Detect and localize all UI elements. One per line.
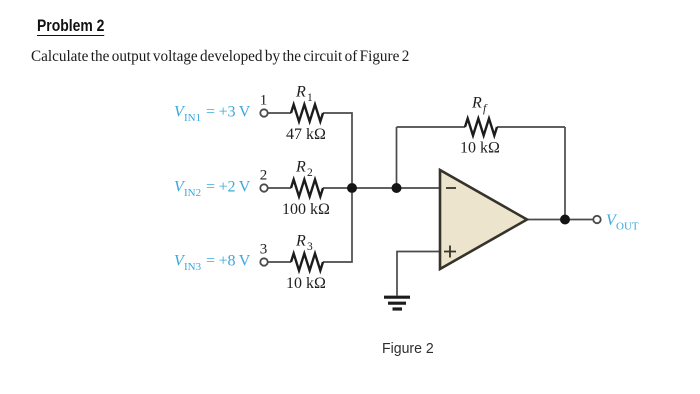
svg-text:IN1: IN1 xyxy=(184,112,201,124)
node B junction dot xyxy=(392,183,402,193)
wire: R1 right to bus corner and down to node A xyxy=(323,113,352,183)
svg-text:R: R xyxy=(295,84,306,101)
svg-text:f: f xyxy=(483,103,488,115)
svg-text:= +3 V: = +3 V xyxy=(206,104,251,121)
wire: input 2 terminal to R2 xyxy=(268,187,291,189)
output node junction dot xyxy=(560,215,570,225)
svg-text:R: R xyxy=(295,233,306,250)
input terminal 3 xyxy=(260,258,267,265)
resistor Rf xyxy=(465,95,497,136)
wire: feedback top right segment from Rf xyxy=(497,126,565,128)
wire: input 1 terminal to R1 xyxy=(268,112,291,114)
value label 10 kΩ (Rf) xyxy=(460,140,500,157)
svg-text:IN2: IN2 xyxy=(184,187,201,199)
svg-text:R: R xyxy=(471,95,482,112)
value label 100 kΩ xyxy=(282,201,330,218)
resistor R1 xyxy=(291,84,323,122)
svg-text:2: 2 xyxy=(260,168,268,184)
svg-text:3: 3 xyxy=(307,241,313,253)
svg-text:= +8 V: = +8 V xyxy=(206,253,251,270)
wire: feedback top left segment to Rf xyxy=(397,126,466,128)
resistor R2 xyxy=(291,159,323,197)
ground xyxy=(384,297,410,309)
pin number 3 xyxy=(260,242,268,258)
output terminal VOUT circle xyxy=(593,216,600,223)
svg-text:3: 3 xyxy=(260,242,268,258)
wire: node A to node B to op-amp inverting input xyxy=(352,187,440,189)
problem statement text xyxy=(31,48,409,66)
value label 10 kΩ xyxy=(286,275,326,292)
wire: R2 right to node A xyxy=(323,187,352,189)
value label 47 kΩ xyxy=(286,126,326,143)
wire: R3 right to bus corner and up to node A xyxy=(323,193,352,262)
label VIN1 = +3 V xyxy=(174,104,251,125)
wire: op-amp output to output node to VOUT terminal xyxy=(527,219,593,221)
wire: feedback left vertical from node B up xyxy=(396,127,398,188)
svg-text:IN3: IN3 xyxy=(184,261,202,273)
label VIN2 = +2 V xyxy=(174,179,251,200)
label VIN3 = +8 V xyxy=(174,253,251,274)
svg-text:1: 1 xyxy=(260,93,268,109)
svg-text:OUT: OUT xyxy=(616,221,639,233)
node A junction dot xyxy=(347,183,357,193)
pin number 2 xyxy=(260,168,268,184)
svg-text:1: 1 xyxy=(307,92,313,104)
svg-text:= +2 V: = +2 V xyxy=(206,179,251,196)
svg-text:2: 2 xyxy=(307,167,313,179)
svg-text:47 kΩ: 47 kΩ xyxy=(286,126,326,143)
resistor R3 xyxy=(291,233,323,271)
input terminal 1 xyxy=(260,109,267,116)
svg-text:10 kΩ: 10 kΩ xyxy=(286,275,326,292)
wire: input 3 terminal to R3 xyxy=(268,261,291,263)
svg-text:100 kΩ: 100 kΩ xyxy=(282,201,330,218)
label VOUT xyxy=(606,212,639,233)
wire: non-inverting input to ground drop xyxy=(397,252,440,296)
figure caption "Figure 2" xyxy=(382,340,434,357)
pin number 1 xyxy=(260,93,268,109)
heading "Problem 2" xyxy=(37,17,104,36)
wire: feedback right vertical down to output node xyxy=(564,127,566,220)
op-amp U1 xyxy=(440,170,527,269)
svg-text:R: R xyxy=(295,159,306,176)
input terminal 2 xyxy=(260,184,267,191)
svg-text:10 kΩ: 10 kΩ xyxy=(460,140,500,157)
